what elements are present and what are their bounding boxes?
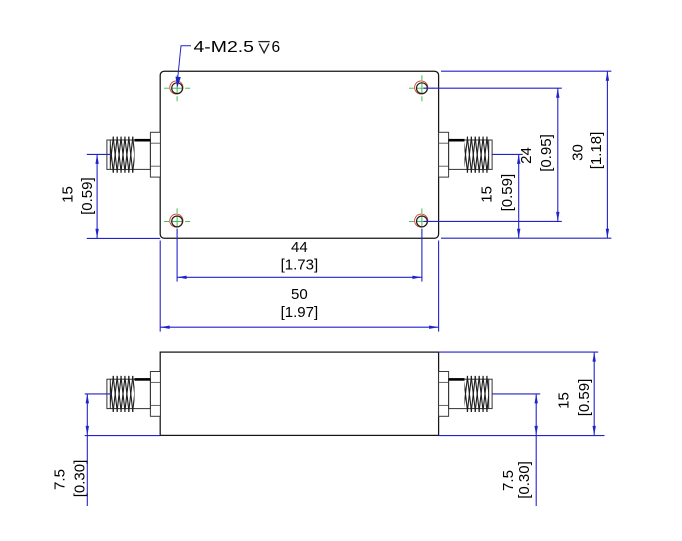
dimension 50 [1.97] body width [160,241,439,332]
dimension 30 [1.18] body height [441,71,611,238]
svg-text:[1.73]: [1.73] [281,257,319,274]
dimension 7.5 [0.30] right connector height [493,394,541,506]
dimension 7.5 [0.30] left connector height [51,394,160,506]
SMA connector left (side view) [105,372,160,417]
svg-text:7.5: 7.5 [500,470,517,491]
dimension 24 [0.95] hole spacing vertical [424,88,562,221]
label 4-M2.5 depth 6 [194,39,281,56]
mounting hole top-right [409,75,435,101]
svg-text:[0.59]: [0.59] [499,174,516,212]
dimension 15 [0.59] side view height [439,352,605,436]
dimension 44 [1.73] hole spacing [177,229,422,282]
svg-text:[1.18]: [1.18] [588,132,605,170]
svg-text:[1.97]: [1.97] [281,304,319,321]
SMA connector right (top view) [439,132,495,177]
svg-text:4-M2.5: 4-M2.5 [194,39,255,56]
svg-text:15: 15 [478,186,495,203]
leader line to tapped hole [176,46,192,88]
svg-text:[0.95]: [0.95] [538,134,555,172]
mounting hole bottom-right [409,208,435,234]
svg-text:50: 50 [291,286,308,303]
side view enclosure outline [160,352,438,435]
svg-text:30: 30 [569,144,586,161]
top view enclosure outline [160,71,438,238]
SMA connector right (side view) [439,372,495,417]
svg-text:15: 15 [555,392,572,409]
svg-text:[0.30]: [0.30] [516,461,533,499]
mounting hole top-left [164,75,190,101]
svg-text:[0.59]: [0.59] [576,379,593,417]
dimension 15 [0.59] left of top view [59,154,160,238]
svg-text:[0.59]: [0.59] [79,177,96,215]
svg-text:6: 6 [272,39,281,56]
svg-text:7.5: 7.5 [51,469,68,490]
mounting hole bottom-left [164,208,190,234]
SMA connector left (top view) [105,132,160,177]
svg-text:44: 44 [291,239,308,256]
svg-text:15: 15 [59,186,76,203]
svg-text:24: 24 [518,147,535,164]
dimension 15 [0.59] right of top view [478,154,522,238]
svg-text:[0.30]: [0.30] [71,460,88,498]
